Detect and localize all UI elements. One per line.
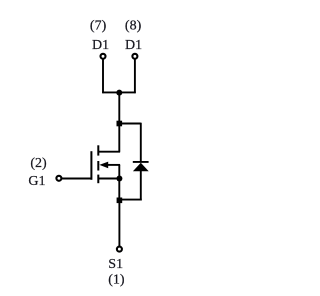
svg-text:(1): (1) — [108, 272, 125, 287]
wire source vertical — [118, 179, 120, 201]
wire diode branch vertical upper — [140, 123, 142, 162]
mosfet Q1 body stub — [108, 164, 121, 166]
svg-text:G1: G1 — [28, 174, 45, 189]
svg-text:(7): (7) — [90, 19, 107, 34]
wire diode branch vertical lower — [140, 171, 142, 201]
mosfet Q1 source stub — [98, 178, 119, 180]
junction square drain node — [117, 121, 123, 127]
wire drain-7 vertical — [102, 59, 104, 93]
wire diode anode to source node — [119, 199, 141, 201]
mosfet Q1 drain stub — [98, 151, 120, 153]
wire gate — [62, 178, 92, 180]
svg-text:D1: D1 — [125, 38, 142, 53]
junction square source-diode node — [117, 198, 123, 204]
wire drain top bus — [102, 91, 136, 93]
mosfet Q1 body arrow — [99, 162, 108, 169]
wire body to source — [118, 165, 120, 179]
diode D cathode bar — [133, 161, 149, 163]
mosfet Q1 gate plate — [90, 151, 92, 180]
wire source to terminal — [118, 200, 120, 246]
mosfet Q1 channel segment middle — [97, 161, 99, 171]
junction dot source node — [116, 176, 122, 182]
diode D anode triangle — [133, 163, 149, 172]
junction dot drain bus — [116, 90, 122, 96]
wire drain-8 vertical — [134, 59, 136, 93]
wire drain drop — [118, 93, 120, 124]
svg-text:S1: S1 — [108, 257, 123, 272]
terminal pin 7 — [101, 54, 106, 59]
wire to diode cathode top — [119, 123, 141, 125]
wire drain vertical to mosfet — [118, 124, 120, 152]
terminal pin 2 G1 — [56, 176, 61, 181]
svg-text:D1: D1 — [92, 38, 109, 53]
mosfet Q1 channel segment top — [97, 145, 99, 155]
mosfet Q1 channel segment bottom — [97, 175, 99, 184]
terminal pin 8 — [132, 54, 137, 59]
terminal pin 1 S1 — [117, 247, 122, 252]
svg-text:(2): (2) — [30, 156, 47, 171]
svg-text:(8): (8) — [125, 19, 142, 34]
